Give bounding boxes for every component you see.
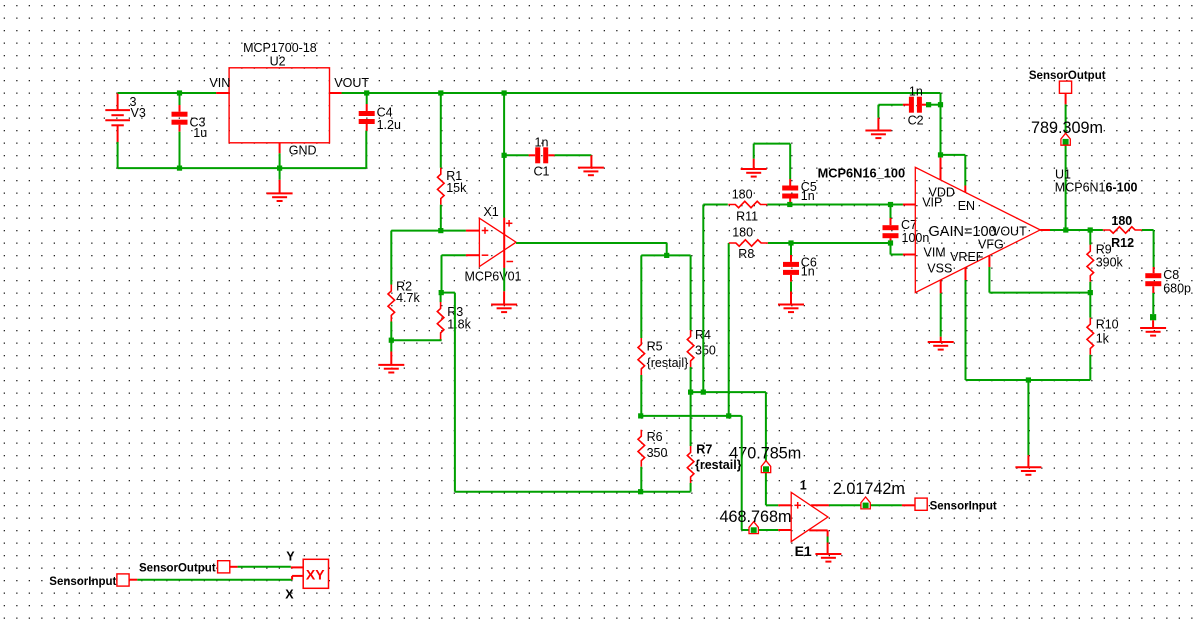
- wire ref ground drop: [1027, 380, 1029, 455]
- node C6 junction: [788, 240, 793, 245]
- pin VREF: [965, 267, 967, 280]
- label C2 value 1n: [909, 84, 923, 98]
- svg-text:{restail}: {restail}: [647, 356, 689, 370]
- wire C1 right: [548, 154, 591, 156]
- ground above C5: [741, 159, 767, 177]
- label R11 value 180: [732, 187, 753, 201]
- svg-text:VIP: VIP: [922, 196, 942, 210]
- wire VIM link: [891, 243, 903, 255]
- pin E1 minus: [778, 529, 791, 531]
- svg-text:15k: 15k: [446, 181, 467, 195]
- node X1 supply rail junction: [502, 90, 507, 95]
- label R11: [736, 209, 758, 223]
- wire C8 top: [1153, 267, 1155, 273]
- scope XY box: [303, 559, 328, 588]
- svg-text:180: 180: [732, 225, 753, 239]
- label SensorOutput bottom: [139, 562, 216, 574]
- node R12 R9 junction: [1088, 227, 1093, 232]
- wire R2 bottom: [390, 322, 392, 341]
- node C5 junction: [787, 202, 792, 207]
- resistor R7: [687, 446, 694, 483]
- pin E1 output: [811, 504, 829, 506]
- svg-text:R12: R12: [1111, 236, 1134, 250]
- label GAIN=100: [929, 224, 997, 240]
- wire R2 top: [390, 231, 392, 285]
- label SensorInput bottom: [49, 576, 116, 588]
- wire R6 bottom: [640, 467, 642, 492]
- label C4: [377, 106, 393, 120]
- label C1 value 1n: [535, 136, 549, 150]
- wire C3 bottom: [179, 125, 181, 168]
- pin VIM stub: [903, 254, 915, 256]
- label R8 value 180: [732, 225, 753, 239]
- svg-text:R5: R5: [647, 340, 663, 354]
- node VDD wire junction: [938, 152, 943, 157]
- wire C5 bottom: [789, 199, 791, 205]
- node C7 top junction: [888, 202, 893, 207]
- amplifier U1 MCP6N16: [915, 167, 1040, 292]
- resistor R11: [728, 201, 767, 207]
- wire X1 supply: [503, 93, 505, 218]
- wire C2 right: [922, 104, 941, 106]
- node C8 probe square: [1150, 314, 1156, 320]
- svg-text:1n: 1n: [801, 189, 815, 203]
- wire amp output: [1050, 229, 1103, 231]
- label VSS: [927, 261, 952, 275]
- wire SensorOutput to XY: [230, 566, 303, 569]
- node SensorOutput tap junction: [1063, 227, 1068, 232]
- label value 468.768m: [720, 508, 792, 526]
- wire R2 R3 link: [391, 339, 441, 341]
- capacitor C6: [783, 262, 799, 275]
- label V3: [131, 106, 146, 120]
- svg-text:470.785m: 470.785m: [729, 444, 801, 462]
- probe marker 468: [749, 522, 758, 534]
- label R6 value 350: [647, 446, 668, 460]
- wire R3 top: [440, 293, 442, 303]
- op-amp X1: [479, 218, 516, 266]
- label R1 value 15k: [446, 181, 467, 195]
- label R9: [1096, 243, 1112, 257]
- node R5 R6 junction: [638, 413, 643, 418]
- label R5 value restail: [647, 356, 689, 370]
- pin VOUT: [330, 76, 370, 93]
- svg-text:R7: R7: [696, 443, 712, 457]
- label Y: [286, 549, 295, 563]
- capacitor C8: [1145, 273, 1161, 286]
- port SensorOutput: [1059, 81, 1071, 93]
- wire ref row: [966, 379, 1091, 381]
- svg-text:350: 350: [647, 446, 668, 460]
- svg-text:VIN: VIN: [209, 76, 230, 90]
- node R2 ground junction: [389, 338, 394, 343]
- svg-text:R6: R6: [647, 430, 663, 444]
- node R1 rail junction: [438, 90, 443, 95]
- wire battery top to U2 VIN: [118, 92, 217, 94]
- wire C3 top: [179, 93, 181, 112]
- wire R11 drop: [702, 205, 704, 393]
- label C7: [901, 218, 917, 232]
- node X1 output junction: [664, 253, 669, 258]
- label VREF: [950, 250, 984, 264]
- wire R1 bottom: [440, 205, 442, 231]
- node C3 top junction: [177, 90, 182, 95]
- svg-text:VOUT: VOUT: [334, 76, 369, 90]
- svg-text:V3: V3: [131, 106, 146, 120]
- label R12 value 180: [1111, 214, 1132, 228]
- label X1 part MCP6V01: [465, 269, 522, 283]
- wire bottom row: [455, 491, 691, 493]
- wire R9 top: [1089, 230, 1091, 245]
- svg-text:U2: U2: [270, 55, 286, 69]
- resistor R10: [1087, 318, 1094, 355]
- wire mid row: [691, 391, 766, 393]
- node X1 plus junction: [438, 228, 443, 233]
- node VDD C2 junction: [938, 102, 943, 107]
- label C6 value 1n: [801, 265, 815, 279]
- svg-text:VIM: VIM: [924, 245, 946, 259]
- pin X1 V+ supply: [504, 218, 512, 268]
- label C3: [190, 115, 206, 129]
- wire X1 plus input: [391, 230, 479, 232]
- wire SensorInput to XY: [130, 576, 304, 580]
- svg-text:1n: 1n: [801, 265, 815, 279]
- wire X1 minus input: [442, 255, 480, 292]
- wire R10 top: [1089, 293, 1091, 318]
- label SensorOutput top: [1029, 70, 1106, 82]
- svg-text:390k: 390k: [1096, 255, 1124, 269]
- label VIM: [924, 245, 946, 259]
- label MCP6N16_100: [818, 166, 906, 181]
- capacitor C2: [909, 97, 922, 113]
- wire EN branch: [941, 155, 966, 186]
- label R7: [696, 443, 712, 457]
- resistor R4: [687, 330, 694, 367]
- svg-text:1.8k: 1.8k: [447, 318, 471, 332]
- node C1 tap junction: [502, 153, 507, 158]
- resistor R3: [437, 302, 444, 339]
- node R6 bottom junction: [638, 489, 643, 494]
- node C3 bottom junction: [177, 166, 182, 171]
- wire C2 ground arm: [877, 105, 879, 118]
- wire R11 left: [703, 204, 728, 206]
- wire C7 top: [890, 205, 892, 226]
- wire C6 top: [790, 243, 792, 262]
- svg-text:X1: X1: [483, 205, 498, 219]
- wire X1 output: [516, 243, 667, 255]
- pin SensorInput stub: [902, 504, 915, 506]
- label R12: [1111, 236, 1134, 250]
- label V3 value 3: [130, 95, 137, 109]
- wire VSS ground: [940, 293, 942, 336]
- label R6: [647, 430, 663, 444]
- resistor R6: [638, 430, 645, 467]
- node R9 R10 junction: [1088, 290, 1093, 295]
- ground below C6: [778, 292, 804, 313]
- node C2 junction: [926, 102, 931, 107]
- svg-text:1k: 1k: [1096, 331, 1110, 345]
- pin EN: [964, 186, 966, 193]
- regulator U2 MCP1700-18 box: [229, 68, 329, 143]
- label MCP1700-18: [243, 41, 317, 55]
- label EN: [958, 199, 975, 213]
- label VOUT amp: [992, 224, 1027, 238]
- svg-text:R10: R10: [1096, 317, 1119, 331]
- port SensorInput right: [915, 498, 927, 510]
- wire VFG feedback: [989, 267, 1090, 293]
- svg-text:XY: XY: [306, 567, 325, 583]
- ground below C2: [865, 118, 891, 138]
- label C3 value 1u: [193, 126, 207, 140]
- wire bridge top row: [641, 254, 690, 256]
- svg-text:R11: R11: [736, 209, 758, 223]
- label VDD: [929, 185, 955, 199]
- label R2 value 4.7k: [396, 291, 420, 305]
- wire R5 bottom: [640, 375, 642, 416]
- label R9 value 390k: [1096, 255, 1124, 269]
- node R3 top junction: [439, 290, 444, 295]
- ground below ref: [1015, 455, 1041, 475]
- label R3 value 1.8k: [447, 318, 471, 332]
- wire R10 bottom: [1089, 355, 1091, 380]
- label U1: [1055, 167, 1071, 181]
- pin VIN: [209, 76, 230, 93]
- svg-text:U1: U1: [1055, 167, 1071, 181]
- svg-text:180: 180: [1111, 214, 1132, 228]
- ground below E1: [815, 554, 841, 562]
- resistor R12: [1103, 227, 1142, 233]
- pin E1 plus: [778, 504, 791, 506]
- label R1: [446, 169, 462, 183]
- label C6: [801, 255, 817, 269]
- pin VOUT stub: [1040, 229, 1050, 231]
- svg-text:2.01742m: 2.01742m: [833, 480, 905, 498]
- port SensorInput bottom: [117, 574, 129, 586]
- label R5: [647, 340, 663, 354]
- source E1: [791, 492, 828, 541]
- svg-text:1.2u: 1.2u: [377, 118, 401, 132]
- svg-text:680p: 680p: [1163, 282, 1191, 296]
- label C8: [1163, 268, 1179, 282]
- svg-text:VREF: VREF: [950, 250, 984, 264]
- pin VDD: [940, 158, 942, 180]
- svg-text:4.7k: 4.7k: [396, 291, 420, 305]
- node R8 drop junction: [726, 413, 731, 418]
- label C7 value 100n: [902, 231, 930, 245]
- label U1 part MCP6N16-100: [1055, 181, 1138, 195]
- wire C1 left: [504, 154, 535, 156]
- pin E1 reference: [809, 530, 827, 554]
- resistor R9: [1087, 245, 1094, 282]
- wire R7 top: [690, 392, 692, 446]
- resistor R2: [388, 285, 395, 322]
- wire R1 top: [440, 93, 442, 168]
- probe marker SensorOutput: [1061, 133, 1070, 145]
- label R8: [738, 247, 754, 261]
- svg-text:1u: 1u: [193, 126, 207, 140]
- label R7 value restail: [695, 458, 742, 472]
- label R4: [695, 328, 711, 342]
- wire C2 left: [878, 104, 909, 106]
- label value 2.01742m: [833, 480, 905, 498]
- label C2: [908, 114, 924, 128]
- label U2: [270, 55, 286, 69]
- wire low row: [641, 415, 742, 417]
- ground below C8: [1140, 320, 1166, 335]
- label R3: [447, 305, 463, 319]
- capacitor C1: [535, 147, 548, 163]
- capacitor C7: [883, 225, 899, 238]
- wire R5 top: [640, 255, 642, 338]
- svg-text:X: X: [285, 587, 294, 601]
- capacitor C4: [359, 111, 375, 124]
- resistor R1: [438, 168, 445, 205]
- pin VFG: [988, 255, 990, 267]
- node ref ground junction: [1026, 377, 1031, 382]
- svg-text:R8: R8: [738, 247, 754, 261]
- wire E1 plus drop: [766, 392, 778, 505]
- wire R8 right: [768, 242, 891, 244]
- label R10: [1096, 317, 1119, 331]
- svg-text:468.768m: 468.768m: [720, 508, 792, 526]
- wire E1 output: [829, 504, 902, 506]
- svg-text:1: 1: [800, 478, 807, 492]
- ground below X1: [491, 268, 517, 312]
- wire R7 bottom: [690, 483, 692, 492]
- wire R8 drop: [728, 243, 730, 416]
- ground below U2: [267, 168, 293, 201]
- svg-text:Y: Y: [286, 549, 295, 563]
- svg-text:MCP6N16-100: MCP6N16-100: [1055, 181, 1138, 195]
- battery V3: [105, 110, 130, 125]
- svg-text:E1: E1: [795, 543, 812, 559]
- label C4 value 1.2u: [377, 118, 401, 132]
- svg-text:GND: GND: [289, 143, 317, 157]
- label C8 value 680p: [1163, 282, 1191, 296]
- svg-text:MCP6N16_100: MCP6N16_100: [818, 166, 906, 181]
- resistor R8: [729, 240, 768, 246]
- svg-text:SensorOutput: SensorOutput: [139, 562, 216, 574]
- wire X1 feedback: [441, 293, 455, 492]
- capacitor C5: [782, 186, 798, 199]
- wire C8 bottom: [1152, 286, 1154, 314]
- svg-text:C1: C1: [534, 164, 550, 178]
- wire R11 right: [767, 204, 915, 206]
- node U2 GND junction: [277, 166, 282, 171]
- wire R9 bottom: [1089, 282, 1091, 293]
- node C4 top junction: [364, 90, 369, 95]
- port SensorOutput bottom: [218, 561, 230, 573]
- svg-text:C2: C2: [908, 114, 924, 128]
- resistor R5: [638, 338, 645, 375]
- wire SensorOutput drop: [1065, 93, 1067, 230]
- svg-text:SensorInput: SensorInput: [49, 576, 116, 588]
- label R2: [396, 279, 412, 293]
- node R11 drop junction: [701, 390, 706, 395]
- pin X1 V- supply: [507, 261, 514, 263]
- pin VSS: [940, 280, 942, 293]
- wire C6 bottom: [790, 275, 792, 292]
- label VFG: [978, 237, 1004, 251]
- svg-text:1n: 1n: [909, 84, 923, 98]
- wire R12 right: [1142, 230, 1154, 267]
- svg-text:350: 350: [695, 344, 716, 358]
- label value 470.785m: [729, 444, 801, 462]
- label C1: [534, 164, 550, 178]
- svg-text:MCP1700-18: MCP1700-18: [243, 41, 317, 55]
- wire C5 ground loop: [754, 144, 791, 186]
- label SensorInput right: [930, 500, 997, 512]
- svg-text:C8: C8: [1163, 268, 1179, 282]
- label VIP: [922, 196, 942, 210]
- label X1: [483, 205, 498, 219]
- wire E1 minus row: [742, 416, 779, 530]
- svg-text:180: 180: [732, 187, 753, 201]
- wire R4 top: [690, 255, 692, 330]
- wire bottom rail: [118, 131, 367, 169]
- svg-text:1n: 1n: [535, 136, 549, 150]
- label C5: [801, 180, 817, 194]
- capacitor C3: [172, 112, 188, 125]
- ground right of C1: [578, 155, 604, 175]
- wire R4 bottom: [690, 367, 692, 392]
- label E1: [795, 543, 812, 559]
- label C5 value 1n: [801, 189, 815, 203]
- ground below R2: [378, 340, 404, 372]
- wire V3 top lead: [117, 93, 119, 168]
- wire C7 bottom: [890, 238, 892, 243]
- svg-text:VOUT: VOUT: [992, 224, 1027, 238]
- svg-text:SensorInput: SensorInput: [930, 500, 997, 512]
- node C7 bottom junction: [888, 240, 893, 245]
- label X: [285, 587, 294, 601]
- probe marker 470: [761, 461, 770, 473]
- svg-text:VSS: VSS: [927, 261, 952, 275]
- wire R3 bottom: [440, 339, 442, 340]
- svg-text:MCP6V01: MCP6V01: [465, 269, 522, 283]
- svg-text:SensorOutput: SensorOutput: [1029, 70, 1106, 82]
- label R10 value 1k: [1096, 331, 1110, 345]
- wire C4 bottom: [366, 124, 368, 131]
- wire VREF: [965, 280, 967, 380]
- ground below VSS: [928, 337, 954, 350]
- label E1 pin 1: [800, 478, 807, 492]
- label value 789.309m: [1031, 119, 1103, 137]
- label R4 value 350: [695, 344, 716, 358]
- pin GND: [280, 143, 317, 168]
- probe marker 2.01: [861, 497, 870, 509]
- svg-text:EN: EN: [958, 199, 975, 213]
- wire VOUT rail: [342, 93, 941, 158]
- node R4 R7 junction: [688, 390, 693, 395]
- wire C4 top: [366, 93, 368, 111]
